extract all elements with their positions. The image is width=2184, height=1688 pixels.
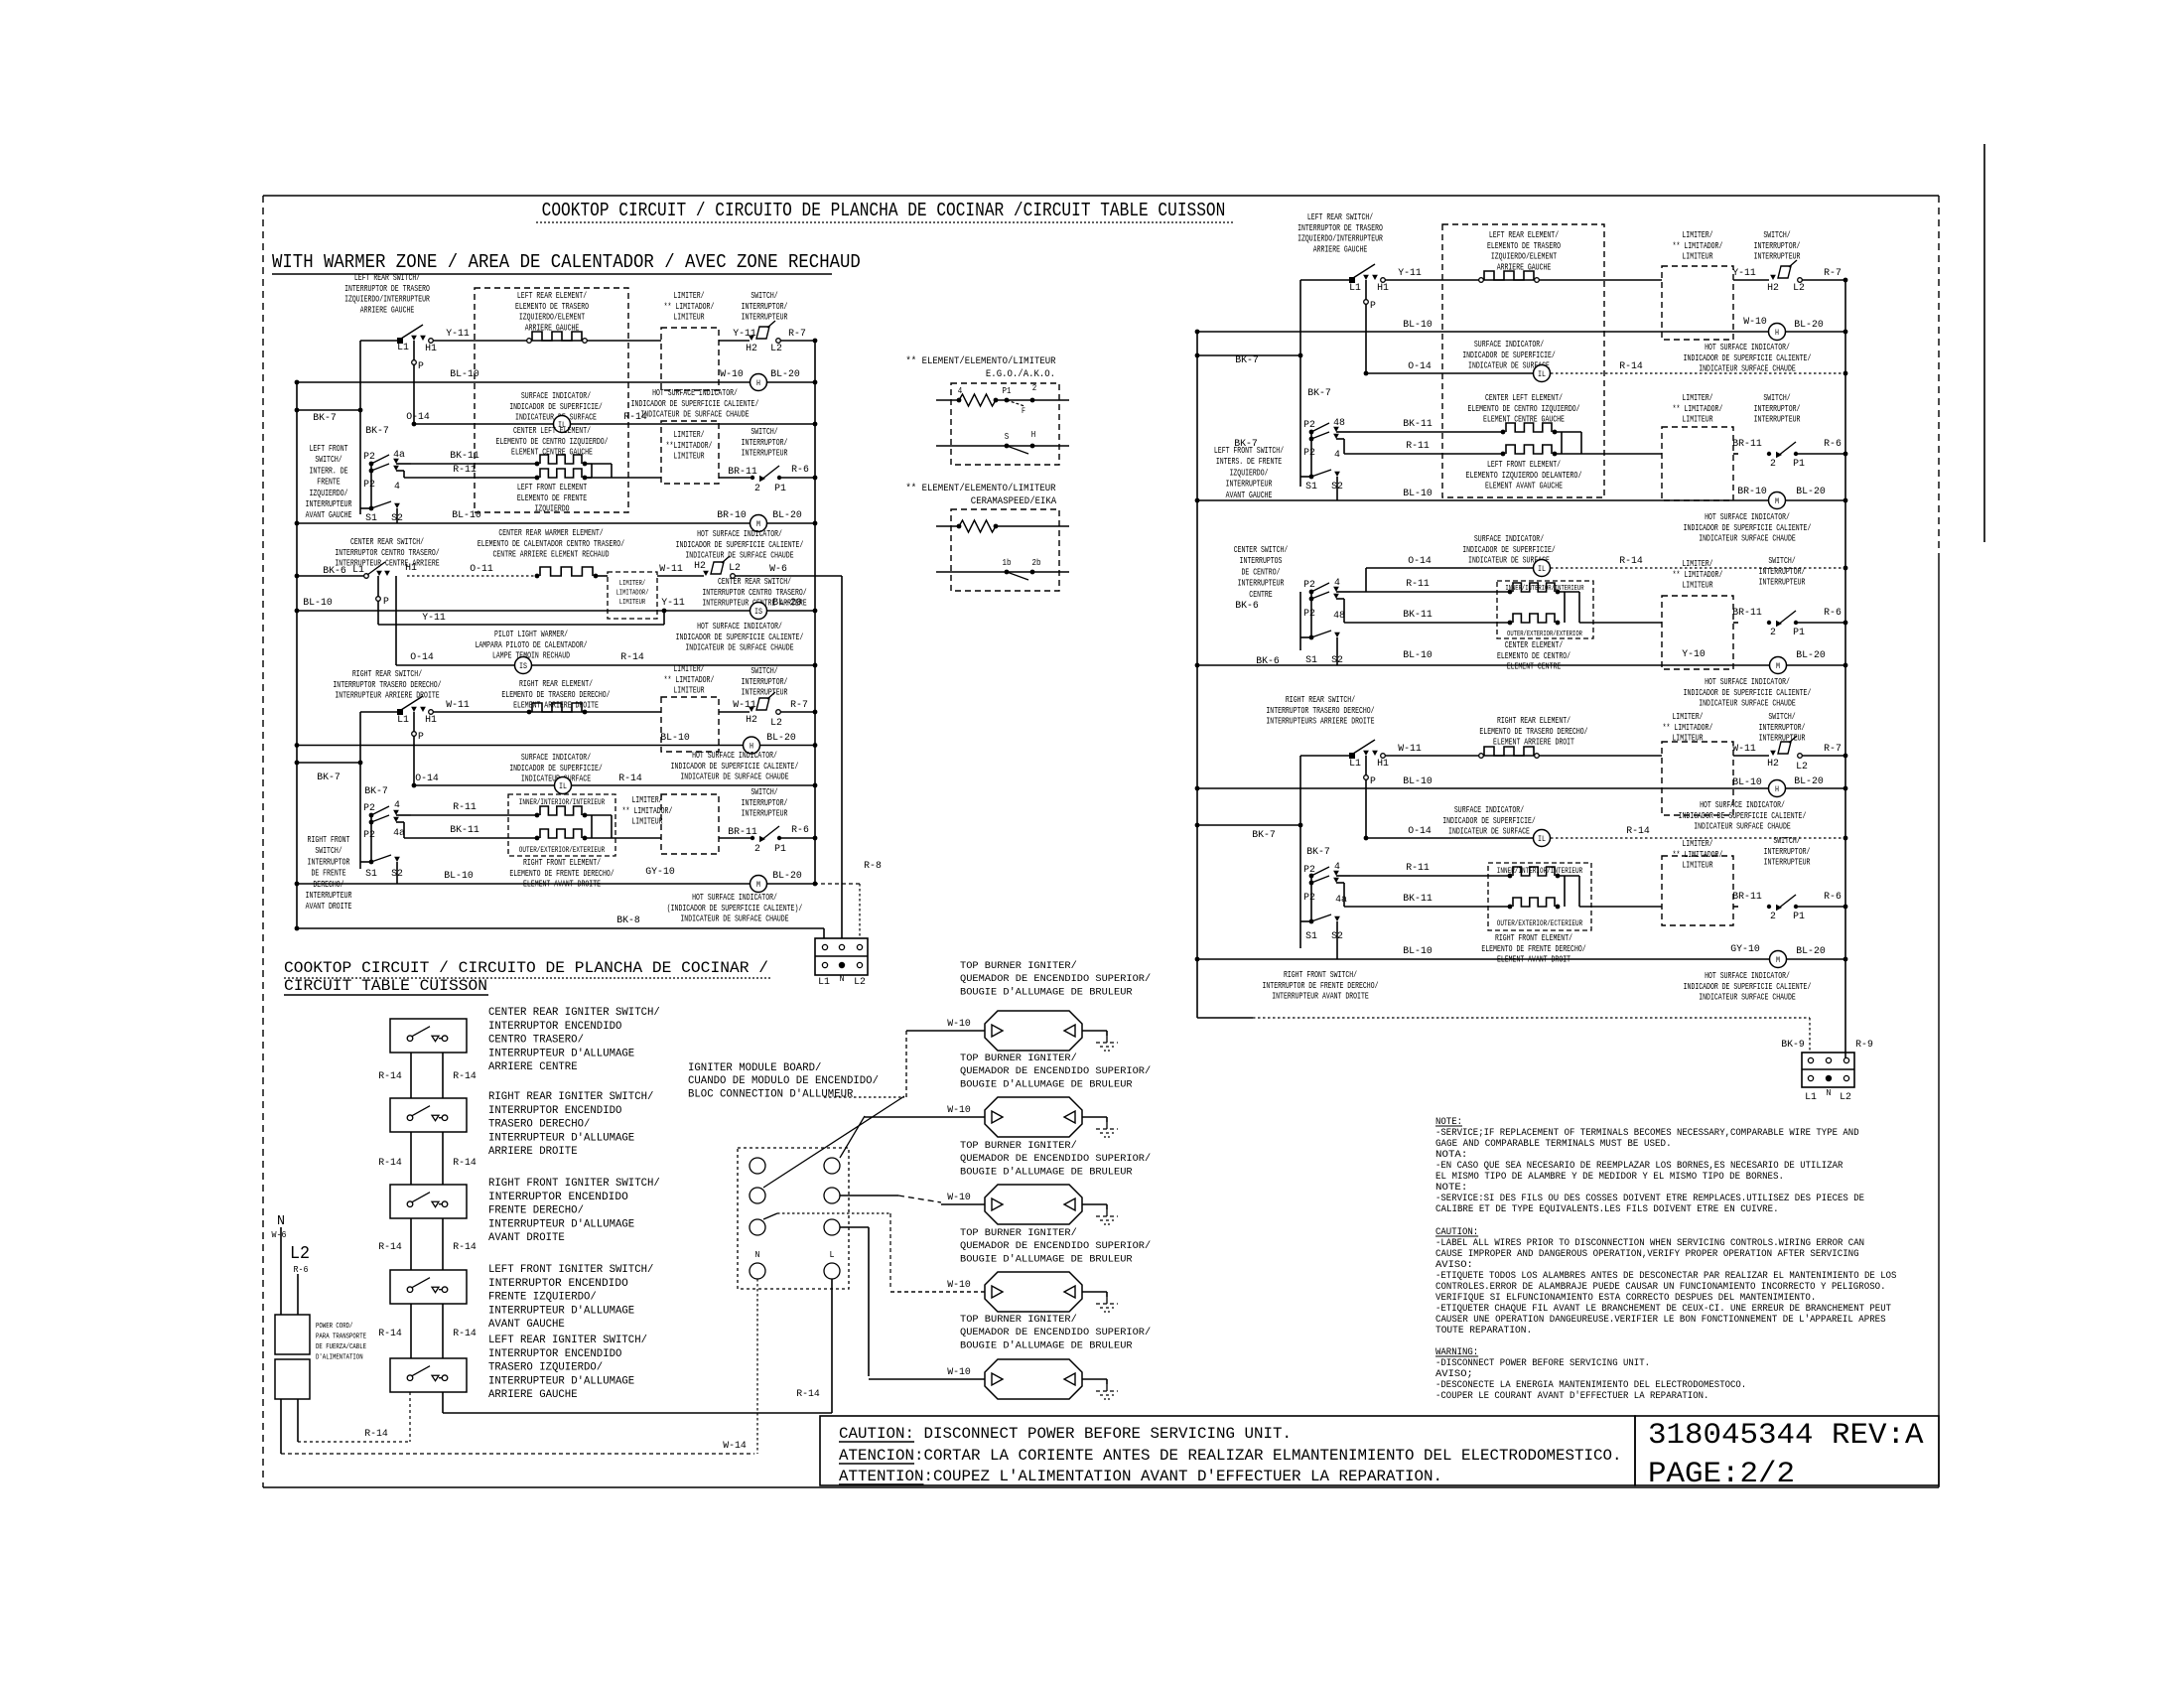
pilot contact P [413,341,415,424]
switch L1-H1 left rear [397,338,403,344]
svg-text:BL-20: BL-20 [1796,945,1826,957]
svg-text:IGNITER MODULE BOARD/: IGNITER MODULE BOARD/ [688,1062,821,1074]
svg-text:BK-11: BK-11 [1403,609,1433,621]
left ladder right rail [814,341,816,884]
wire BK-7 jumper [297,409,360,411]
svg-text:N: N [1827,1088,1832,1098]
svg-text:ELEMENTO DE TRASERO: ELEMENTO DE TRASERO [515,302,589,312]
svg-text:OUTER/EXTERIOR/ECTERIEUR: OUTER/EXTERIOR/ECTERIEUR [1497,919,1583,928]
svg-text:TRASERO IZQUIERDO/: TRASERO IZQUIERDO/ [488,1362,603,1374]
svg-text:CENTER ELEMENT/: CENTER ELEMENT/ [1505,640,1564,650]
svg-text:SWITCH/: SWITCH/ [1768,712,1795,722]
svg-text:ELEMENTO DE FRENTE: ELEMENTO DE FRENTE [517,493,587,503]
wire BK-8 [297,927,824,929]
svg-text:INDICADOR DE SUPERFICIE CALIEN: INDICADOR DE SUPERFICIE CALIENTE/ [676,633,804,642]
svg-text:W-11: W-11 [446,699,470,711]
svg-text:SWITCH/: SWITCH/ [315,846,341,856]
svg-text:INDICATEUR DE SURFACE CHAUDE: INDICATEUR DE SURFACE CHAUDE [680,773,788,782]
svg-text:INTERRUPTOR ENCENDIDO: INTERRUPTOR ENCENDIDO [488,1105,622,1117]
svg-text:TOP BURNER IGNITER/: TOP BURNER IGNITER/ [960,1227,1077,1239]
svg-text:DE FRENTE: DE FRENTE [311,869,345,879]
svg-text:R-14: R-14 [618,773,642,784]
wire right rear rung [360,711,400,713]
svg-text:ELEMENTO DE FRENTE DERECHO/: ELEMENTO DE FRENTE DERECHO/ [1481,944,1585,954]
svg-text:R-14: R-14 [1619,360,1643,372]
right switch H2L2 rr [1770,751,1776,756]
neutral lead wire [280,1227,282,1315]
right rear P contact [413,712,415,785]
svg-text:FRENTE IZQUIERDO/: FRENTE IZQUIERDO/ [488,1292,597,1304]
svg-text:BR-10: BR-10 [717,509,747,521]
svg-text:R-7: R-7 [1824,267,1842,279]
svg-text:NOTE:: NOTE: [1435,1183,1467,1194]
limiter box 2 [661,421,719,484]
svg-text:RIGHT FRONT ELEMENT/: RIGHT FRONT ELEMENT/ [523,858,601,868]
svg-text:P2: P2 [1303,608,1315,620]
center element box [1497,581,1593,638]
svg-text:INTERRUPTOR/: INTERRUPTOR/ [742,798,788,808]
svg-text:INDICATEUR DE SURFACE CHAUDE: INDICATEUR DE SURFACE CHAUDE [640,410,749,420]
svg-text:LEFT REAR SWITCH/: LEFT REAR SWITCH/ [1307,212,1373,222]
wire BL-10 fifth [297,883,750,885]
svg-text:INTERRUPTOR TRASERO DERECHO/: INTERRUPTOR TRASERO DERECHO/ [1266,706,1374,716]
svg-text:2: 2 [754,483,760,494]
warmer P drop [377,576,379,611]
svg-text:O-14: O-14 [1408,555,1432,567]
svg-text:IZQUIERDO/: IZQUIERDO/ [1230,468,1269,478]
S1 S2 contacts [369,506,374,511]
svg-text:DE CENTRO/: DE CENTRO/ [1242,567,1281,577]
svg-text:ARRIERE GAUCHE: ARRIERE GAUCHE [1313,244,1368,254]
svg-text:4: 4 [394,481,400,492]
svg-text:RIGHT FRONT: RIGHT FRONT [308,835,350,845]
svg-text:LIMITER/: LIMITER/ [1682,393,1712,403]
svg-text:H1: H1 [1377,282,1389,294]
svg-text:BK-7: BK-7 [364,785,388,797]
svg-text:TOUTE REPARATION.: TOUTE REPARATION. [1435,1326,1532,1336]
svg-text:CUANDO DE MODULO DE ENCENDIDO/: CUANDO DE MODULO DE ENCENDIDO/ [688,1075,879,1087]
svg-text:-DESCONECTE LA ENERGIA MANTENI: -DESCONECTE LA ENERGIA MANTENIMIENTO DEL… [1435,1380,1746,1391]
wire BK-7 jumper lower [297,762,360,764]
right ladder right rail [1844,280,1846,1060]
svg-text:O-14: O-14 [1408,825,1432,837]
inner element [540,806,582,815]
svg-text:BL-20: BL-20 [1794,775,1824,787]
svg-text:R-14: R-14 [453,1070,477,1082]
svg-text:INDICATEUR SURFACE CHAUDE: INDICATEUR SURFACE CHAUDE [1699,993,1796,1003]
svg-text:O-14: O-14 [415,773,439,784]
svg-text:INDICADOR DE SUPERFICIE/: INDICADOR DE SUPERFICIE/ [509,764,603,774]
svg-text:INTERRUPTEUR: INTERRUPTEUR [306,499,352,509]
svg-text:QUEMADOR DE ENCENDIDO SUPERIOR: QUEMADOR DE ENCENDIDO SUPERIOR/ [960,973,1151,985]
svg-text:DE FUERZA/CABLE: DE FUERZA/CABLE [316,1343,366,1351]
svg-text:1b: 1b [1003,558,1012,568]
element box left [475,288,628,512]
right ladder rail2 upper [1299,280,1301,487]
right center left element [1506,423,1552,432]
svg-text:LEFT REAR ELEMENT/: LEFT REAR ELEMENT/ [517,291,587,301]
left ladder left rail [296,382,298,928]
svg-text:H1: H1 [1377,758,1389,770]
svg-text:L2: L2 [854,976,866,988]
center hot surface M [1770,657,1787,674]
right limiter box rf [1662,856,1733,925]
svg-text:48: 48 [1333,610,1345,622]
svg-text:QUEMADOR DE ENCENDIDO SUPERIOR: QUEMADOR DE ENCENDIDO SUPERIOR/ [960,1153,1151,1165]
svg-text:LIMITER/: LIMITER/ [673,430,704,440]
svg-text:INTERRUPTEUR: INTERRUPTEUR [1754,415,1801,425]
svg-text:L1: L1 [352,564,364,576]
svg-text:** LIMITADOR/: ** LIMITADOR/ [1673,241,1723,251]
svg-text:LIMITEUR: LIMITEUR [1682,415,1713,425]
svg-text:** LIMITADOR/: ** LIMITADOR/ [664,675,715,685]
svg-text:2b: 2b [1032,558,1041,568]
svg-text:M: M [756,881,760,890]
svg-text:ELEMENT CENTRE: ELEMENT CENTRE [1507,662,1562,672]
igniter 2 feed [865,1116,985,1118]
svg-text:FRENTE: FRENTE [317,478,340,488]
svg-text:INDICADOR DE SUPERFICIE CALIEN: INDICADOR DE SUPERFICIE CALIENTE/ [671,762,799,772]
svg-text:LEFT FRONT ELEMENT/: LEFT FRONT ELEMENT/ [1487,460,1561,470]
svg-text:CENTRE: CENTRE [1249,590,1272,600]
svg-text:PILOT LIGHT WARMER/: PILOT LIGHT WARMER/ [494,630,568,639]
svg-text:RIGHT REAR ELEMENT/: RIGHT REAR ELEMENT/ [1497,716,1570,726]
svg-text:2: 2 [1770,911,1776,922]
svg-text:HOT SURFACE INDICATOR/: HOT SURFACE INDICATOR/ [697,529,782,539]
svg-text:IL: IL [559,782,567,791]
outer element [540,829,582,838]
svg-text:AVANT DROITE: AVANT DROITE [488,1232,565,1244]
right surface indicator IL rung1 [1534,365,1551,382]
svg-text:INDICADOR DE SUPERFICIE CALIEN: INDICADOR DE SUPERFICIE CALIENTE/ [1679,811,1807,821]
svg-text:INTERRUPTEUR: INTERRUPTEUR [742,688,788,698]
svg-text:H2: H2 [694,560,706,572]
svg-text:INTERRUPTEUR: INTERRUPTEUR [1754,252,1801,262]
svg-text:S: S [1005,432,1010,442]
svg-text:IZQUIERDO/ELEMENT: IZQUIERDO/ELEMENT [519,313,586,323]
svg-text:AVISO;: AVISO; [1435,1369,1473,1380]
svg-text:Y-11: Y-11 [446,328,470,340]
svg-text:P2: P2 [363,451,375,463]
igniter 5 feed [869,1378,985,1380]
svg-text:RIGHT REAR IGNITER SWITCH/: RIGHT REAR IGNITER SWITCH/ [488,1091,653,1103]
svg-text:-EN CASO QUE SEA NECESARIO DE: -EN CASO QUE SEA NECESARIO DE REEMPLAZAR… [1435,1161,1843,1172]
svg-text:GY-10: GY-10 [1730,943,1760,955]
svg-text:BL-20: BL-20 [766,732,796,744]
module N dotted drop [756,1279,758,1454]
svg-text:N: N [277,1213,285,1229]
svg-text:-SERVICE;IF REPLACEMENT OF TER: -SERVICE;IF REPLACEMENT OF TERMINALS BEC… [1435,1128,1859,1139]
svg-text:BLOC CONNECTION D'ALLUMEUR: BLOC CONNECTION D'ALLUMEUR [688,1088,854,1100]
svg-text:SURFACE INDICATOR/: SURFACE INDICATOR/ [1474,340,1544,350]
svg-text:2: 2 [1770,627,1776,638]
svg-text:** LIMITADOR/: ** LIMITADOR/ [1673,404,1723,414]
svg-text:CENTER REAR SWITCH/: CENTER REAR SWITCH/ [718,577,791,587]
svg-text:(INDICADOR DE SUPERFICIE CALIE: (INDICADOR DE SUPERFICIE CALIENTE)/ [667,904,803,914]
svg-text:ELEMENT ARRIERE DROIT: ELEMENT ARRIERE DROIT [1493,738,1574,748]
svg-text:LEFT FRONT ELEMENT: LEFT FRONT ELEMENT [517,483,588,492]
right wire O-14 center [1366,567,1533,569]
switch H2-L2 right rear [749,707,754,712]
wire warmer to limiter [598,575,608,577]
svg-text:INDICATEUR SURFACE CHAUDE: INDICATEUR SURFACE CHAUDE [1699,534,1796,544]
svg-text:Y-11: Y-11 [1732,267,1756,279]
svg-text:R-11: R-11 [1406,440,1430,452]
svg-text:W-10: W-10 [947,1366,971,1378]
svg-text:SWITCH/: SWITCH/ [751,666,777,676]
legend EGO switch wire [936,445,1069,447]
right rear element [532,703,582,712]
svg-text:INDICADOR DE SUPERFICIE CALIEN: INDICADOR DE SUPERFICIE CALIENTE/ [1684,982,1812,992]
svg-text:2: 2 [754,843,760,855]
hot surface indicator rung4 [744,737,760,754]
svg-text:FRENTE DERECHO/: FRENTE DERECHO/ [488,1205,584,1217]
svg-text:TOP BURNER IGNITER/: TOP BURNER IGNITER/ [960,1314,1077,1326]
limiter box 1 [661,328,719,390]
svg-text:**LIMITADOR/: **LIMITADOR/ [666,441,713,451]
svg-text:HOT SURFACE INDICATOR/: HOT SURFACE INDICATOR/ [692,893,777,903]
right limiter box 2 [1662,427,1733,500]
svg-text:H2: H2 [746,714,757,726]
svg-text:P1: P1 [1003,386,1012,396]
svg-text:R-6: R-6 [791,464,809,476]
element join bars [591,464,593,478]
right hot surface M rung2 [1769,492,1786,509]
svg-text:L2: L2 [729,562,741,574]
svg-text:M: M [1776,662,1780,671]
pilot light indicator [515,657,532,674]
svg-text:CONTROLES.ERROR DE ALAMBRAJE P: CONTROLES.ERROR DE ALAMBRAJE PUEDE CAUSA… [1435,1282,1886,1293]
legend EGO resistor wire [936,399,959,401]
svg-text:CERAMASPEED/EIKA: CERAMASPEED/EIKA [971,495,1057,507]
svg-text:BK-11: BK-11 [1403,893,1433,905]
svg-text:SWITCH/: SWITCH/ [315,455,341,465]
svg-text:BK-11: BK-11 [1403,418,1433,430]
svg-text:AVANT GAUCHE: AVANT GAUCHE [488,1319,565,1331]
svg-text:ELEMENTO DE CENTRO IZQUIERDO/: ELEMENTO DE CENTRO IZQUIERDO/ [1467,404,1579,414]
svg-text:W-6: W-6 [769,563,787,575]
svg-text:E.G.O./A.K.O.: E.G.O./A.K.O. [986,368,1055,380]
surface indicator IL rung4 [555,777,572,794]
svg-text:L1: L1 [1805,1091,1817,1103]
switch right rear [397,709,403,715]
svg-text:GAGE AND COMPARABLE TERMINALS: GAGE AND COMPARABLE TERMINALS MUST BE US… [1435,1139,1672,1150]
svg-text:R-14: R-14 [453,1241,477,1253]
svg-text:RIGHT FRONT SWITCH/: RIGHT FRONT SWITCH/ [1284,970,1357,980]
svg-text:IL: IL [1538,565,1546,574]
svg-text:INTERRUPTEUR: INTERRUPTEUR [1764,858,1811,868]
svg-text:INTERRUPTEUR ARRIERE DROITE: INTERRUPTEUR ARRIERE DROITE [335,691,439,701]
right wire BL-10 rung1 [1197,331,1768,333]
svg-text:M: M [756,520,760,529]
svg-text:P: P [1370,300,1376,312]
svg-text:BL-10: BL-10 [1732,776,1762,788]
svg-text:CALIBRE ET DE TYPE EQUIVALENTS: CALIBRE ET DE TYPE EQUIVALENTS.LES FILS … [1435,1204,1779,1215]
svg-text:BL-20: BL-20 [1794,319,1824,331]
svg-text:INTERRUPTEUR CENTRE ARRIERE: INTERRUPTEUR CENTRE ARRIERE [335,559,439,569]
right element box big [1442,224,1604,497]
svg-text:** ELEMENT/ELEMENTO/LIMITEUR: ** ELEMENT/ELEMENTO/LIMITEUR [905,355,1056,367]
center element top [1513,583,1555,592]
svg-text:INTERRUPTEUR D'ALLUMAGE: INTERRUPTEUR D'ALLUMAGE [488,1375,635,1387]
svg-text:INTERRUPTOR ENCENDIDO: INTERRUPTOR ENCENDIDO [488,1278,628,1290]
svg-text:INTERRUPTOR ENCENDIDO: INTERRUPTOR ENCENDIDO [488,1192,628,1203]
svg-text:R-14: R-14 [453,1157,477,1169]
svg-text:BL-10: BL-10 [660,732,690,744]
svg-text:INTERRUPTEUR: INTERRUPTEUR [742,809,788,819]
svg-text:ELEMENTO DE CALENTADOR CENTRO: ELEMENTO DE CALENTADOR CENTRO TRASERO/ [478,539,624,549]
svg-text:HOT SURFACE INDICATOR/: HOT SURFACE INDICATOR/ [1700,800,1785,810]
svg-text:R-7: R-7 [788,328,806,340]
svg-text:CENTER REAR SWITCH/: CENTER REAR SWITCH/ [350,537,424,547]
svg-text:AVANT GAUCHE: AVANT GAUCHE [1226,491,1273,500]
svg-text:QUEMADOR DE ENCENDIDO SUPERIOR: QUEMADOR DE ENCENDIDO SUPERIOR/ [960,1327,1151,1338]
svg-text:LIMITER/: LIMITER/ [1682,230,1712,240]
svg-text:318045344 REV:A: 318045344 REV:A [1648,1419,1924,1453]
svg-text:H2: H2 [1767,758,1779,770]
svg-text:OUTER/EXTERIOR/EXTERIEUR: OUTER/EXTERIOR/EXTERIEUR [519,846,606,855]
svg-text:LEFT FRONT IGNITER SWITCH/: LEFT FRONT IGNITER SWITCH/ [488,1264,653,1276]
svg-text:P2: P2 [1303,892,1315,904]
svg-text:** LIMITADOR/: ** LIMITADOR/ [1673,570,1723,580]
svg-text:INTERRUPTEUR: INTERRUPTEUR [1226,480,1273,490]
svg-text:P1: P1 [774,843,786,855]
right wire R-11 rf [1350,875,1508,877]
svg-text:HOT SURFACE INDICATOR/: HOT SURFACE INDICATOR/ [1705,512,1790,522]
svg-text:INTERRUPTOR CENTRO TRASERO/: INTERRUPTOR CENTRO TRASERO/ [335,548,439,558]
svg-text:LIMITEUR: LIMITEUR [673,686,705,696]
svg-text:WITH WARMER ZONE / AREA DE CAL: WITH WARMER ZONE / AREA DE CALENTADOR / … [272,251,861,273]
svg-text:R-9: R-9 [1855,1039,1873,1051]
svg-text:INTERRUPTOR ENCENDIDO: INTERRUPTOR ENCENDIDO [488,1348,622,1360]
wire O-14 rung1 [414,423,553,425]
center wire R-11 [1350,591,1508,593]
warmer S drop [395,576,397,665]
svg-text:BL-10: BL-10 [1403,775,1433,787]
svg-text:ELEMENTO DE TRASERO: ELEMENTO DE TRASERO [1487,241,1561,251]
svg-text:LAMPARA PILOTO DE CALENTADOR/: LAMPARA PILOTO DE CALENTADOR/ [475,640,587,650]
svg-text:P2: P2 [1303,579,1315,591]
svg-text:H2: H2 [1767,282,1779,294]
svg-text:INDICATEUR SURFACE CHAUDE: INDICATEUR SURFACE CHAUDE [1694,822,1791,832]
svg-text:-ETIQUETE TODOS LOS ALAMBRES A: -ETIQUETE TODOS LOS ALAMBRES ANTES DE DE… [1435,1271,1896,1282]
svg-text:W-14: W-14 [723,1440,747,1452]
svg-text:R-14: R-14 [796,1388,820,1400]
page border right [1938,196,1940,556]
svg-text:S1: S1 [365,868,377,880]
svg-text:BOUGIE D'ALLUMAGE DE BRULEUR: BOUGIE D'ALLUMAGE DE BRULEUR [960,1339,1133,1351]
svg-text:L2: L2 [770,717,782,729]
svg-text:LIMITADOR/: LIMITADOR/ [616,590,649,598]
right ladder rail2 mid [1299,592,1301,650]
wire O-11 dotted [407,575,535,577]
power cord box 2 [275,1359,310,1399]
wire center rear rung [297,575,365,577]
terminal block left [815,938,868,975]
svg-text:INDICATEUR SURFACE CHAUDE: INDICATEUR SURFACE CHAUDE [1699,364,1796,374]
svg-text:INDICADOR DE SUPERFICIE CALIEN: INDICADOR DE SUPERFICIE CALIENTE/ [631,399,759,409]
svg-text:INTERRUPTEUR AVANT DROITE: INTERRUPTEUR AVANT DROITE [1272,992,1369,1002]
svg-text:IZQUIERDO/: IZQUIERDO/ [310,489,348,498]
svg-text:P2: P2 [363,802,375,814]
svg-text:BL-10: BL-10 [452,509,481,521]
svg-text:LIMITER/: LIMITER/ [1672,712,1703,722]
svg-text:BR-11: BR-11 [1732,438,1762,450]
svg-text:M: M [1776,956,1780,965]
svg-text:NOTA:: NOTA: [1435,1150,1467,1161]
svg-text:R-7: R-7 [790,699,808,711]
svg-text:CENTER REAR IGNITER SWITCH/: CENTER REAR IGNITER SWITCH/ [488,1007,660,1019]
svg-text:Y-11: Y-11 [1398,267,1422,279]
svg-text:LIMITEUR: LIMITEUR [631,817,663,827]
svg-text:L2: L2 [1840,1091,1851,1103]
svg-text:ARRIERE GAUCHE: ARRIERE GAUCHE [360,305,415,315]
legend ceramaspeed switch [936,571,1069,573]
wire R-14 dotted bottom [298,1441,410,1443]
svg-text:IZQUIERDO/INTERRUPTEUR: IZQUIERDO/INTERRUPTEUR [1297,234,1383,244]
svg-text:P2: P2 [363,829,375,841]
svg-text:BK-7: BK-7 [1234,438,1258,450]
svg-text:LIMITEUR: LIMITEUR [673,452,705,462]
svg-text:INDICADOR DE SUPERFICIE/: INDICADOR DE SUPERFICIE/ [1442,816,1536,826]
left front element [540,469,582,478]
svg-text:ATENCION:CORTAR LA CORIENTE AN: ATENCION:CORTAR LA CORIENTE ANTES DE REA… [839,1447,1622,1465]
wire R-8 dashed [814,883,860,885]
svg-text:Y-11: Y-11 [422,612,446,624]
power cord box 1 [275,1315,310,1354]
svg-text:W-11: W-11 [1732,743,1756,755]
svg-text:IZQUIERDO/ELEMENT: IZQUIERDO/ELEMENT [1491,252,1558,262]
wire left rear rung [360,340,400,342]
svg-text:BK-7: BK-7 [365,425,389,437]
svg-text:PAGE:2/2: PAGE:2/2 [1648,1458,1795,1491]
svg-text:SWITCH/: SWITCH/ [1763,230,1790,240]
svg-text:R-11: R-11 [453,801,477,813]
left rear element [532,332,582,341]
svg-text:SURFACE INDICATOR/: SURFACE INDICATOR/ [1454,805,1524,815]
svg-text:INTERRUPTOR DE TRASERO: INTERRUPTOR DE TRASERO [344,284,430,294]
svg-text:HOT SURFACE INDICATOR/: HOT SURFACE INDICATOR/ [1705,971,1790,981]
L2 lead wire [297,1274,299,1315]
svg-text:L1: L1 [397,342,409,353]
svg-text:LIMITER/: LIMITER/ [1682,839,1712,849]
top burner igniter 1 [985,1011,1082,1051]
svg-text:L1: L1 [1349,758,1361,770]
svg-text:ATTENTION:COUPEZ L'ALIMENTATIO: ATTENTION:COUPEZ L'ALIMENTATION AVANT D'… [839,1468,1442,1485]
svg-text:4a: 4a [393,827,405,839]
svg-text:BOUGIE D'ALLUMAGE DE BRULEUR: BOUGIE D'ALLUMAGE DE BRULEUR [960,1166,1133,1178]
svg-text:RIGHT REAR SWITCH/: RIGHT REAR SWITCH/ [1286,695,1355,705]
svg-text:L1: L1 [1349,282,1361,294]
svg-text:L2: L2 [1796,761,1808,773]
svg-text:** ELEMENT/ELEMENTO/LIMITEUR: ** ELEMENT/ELEMENTO/LIMITEUR [905,483,1056,494]
svg-text:INTERRUPTOS: INTERRUPTOS [1240,556,1283,566]
svg-text:INDICADOR DE SUPERFICIE CALIEN: INDICADOR DE SUPERFICIE CALIENTE/ [676,540,804,550]
warmer element [540,567,593,576]
svg-text:W-10: W-10 [947,1018,971,1030]
svg-text:INDICADOR DE SUPERFICIE/: INDICADOR DE SUPERFICIE/ [509,402,603,412]
svg-text:-DISCONNECT POWER BEFORE SERVI: -DISCONNECT POWER BEFORE SERVICING UNIT. [1435,1358,1650,1369]
svg-text:HOT SURFACE INDICATOR/: HOT SURFACE INDICATOR/ [697,622,782,632]
svg-text:CENTER LEFT ELEMENT/: CENTER LEFT ELEMENT/ [513,426,591,436]
right outer element [1513,898,1555,907]
svg-text:BL-10: BL-10 [1403,319,1433,331]
svg-text:INTERRUPTOR TRASERO DERECHO/: INTERRUPTOR TRASERO DERECHO/ [333,680,441,690]
svg-text:P: P [383,596,389,608]
svg-text:S1: S1 [1305,930,1317,942]
svg-text:Y-10: Y-10 [1682,648,1706,660]
right surface IL center [1534,560,1551,577]
